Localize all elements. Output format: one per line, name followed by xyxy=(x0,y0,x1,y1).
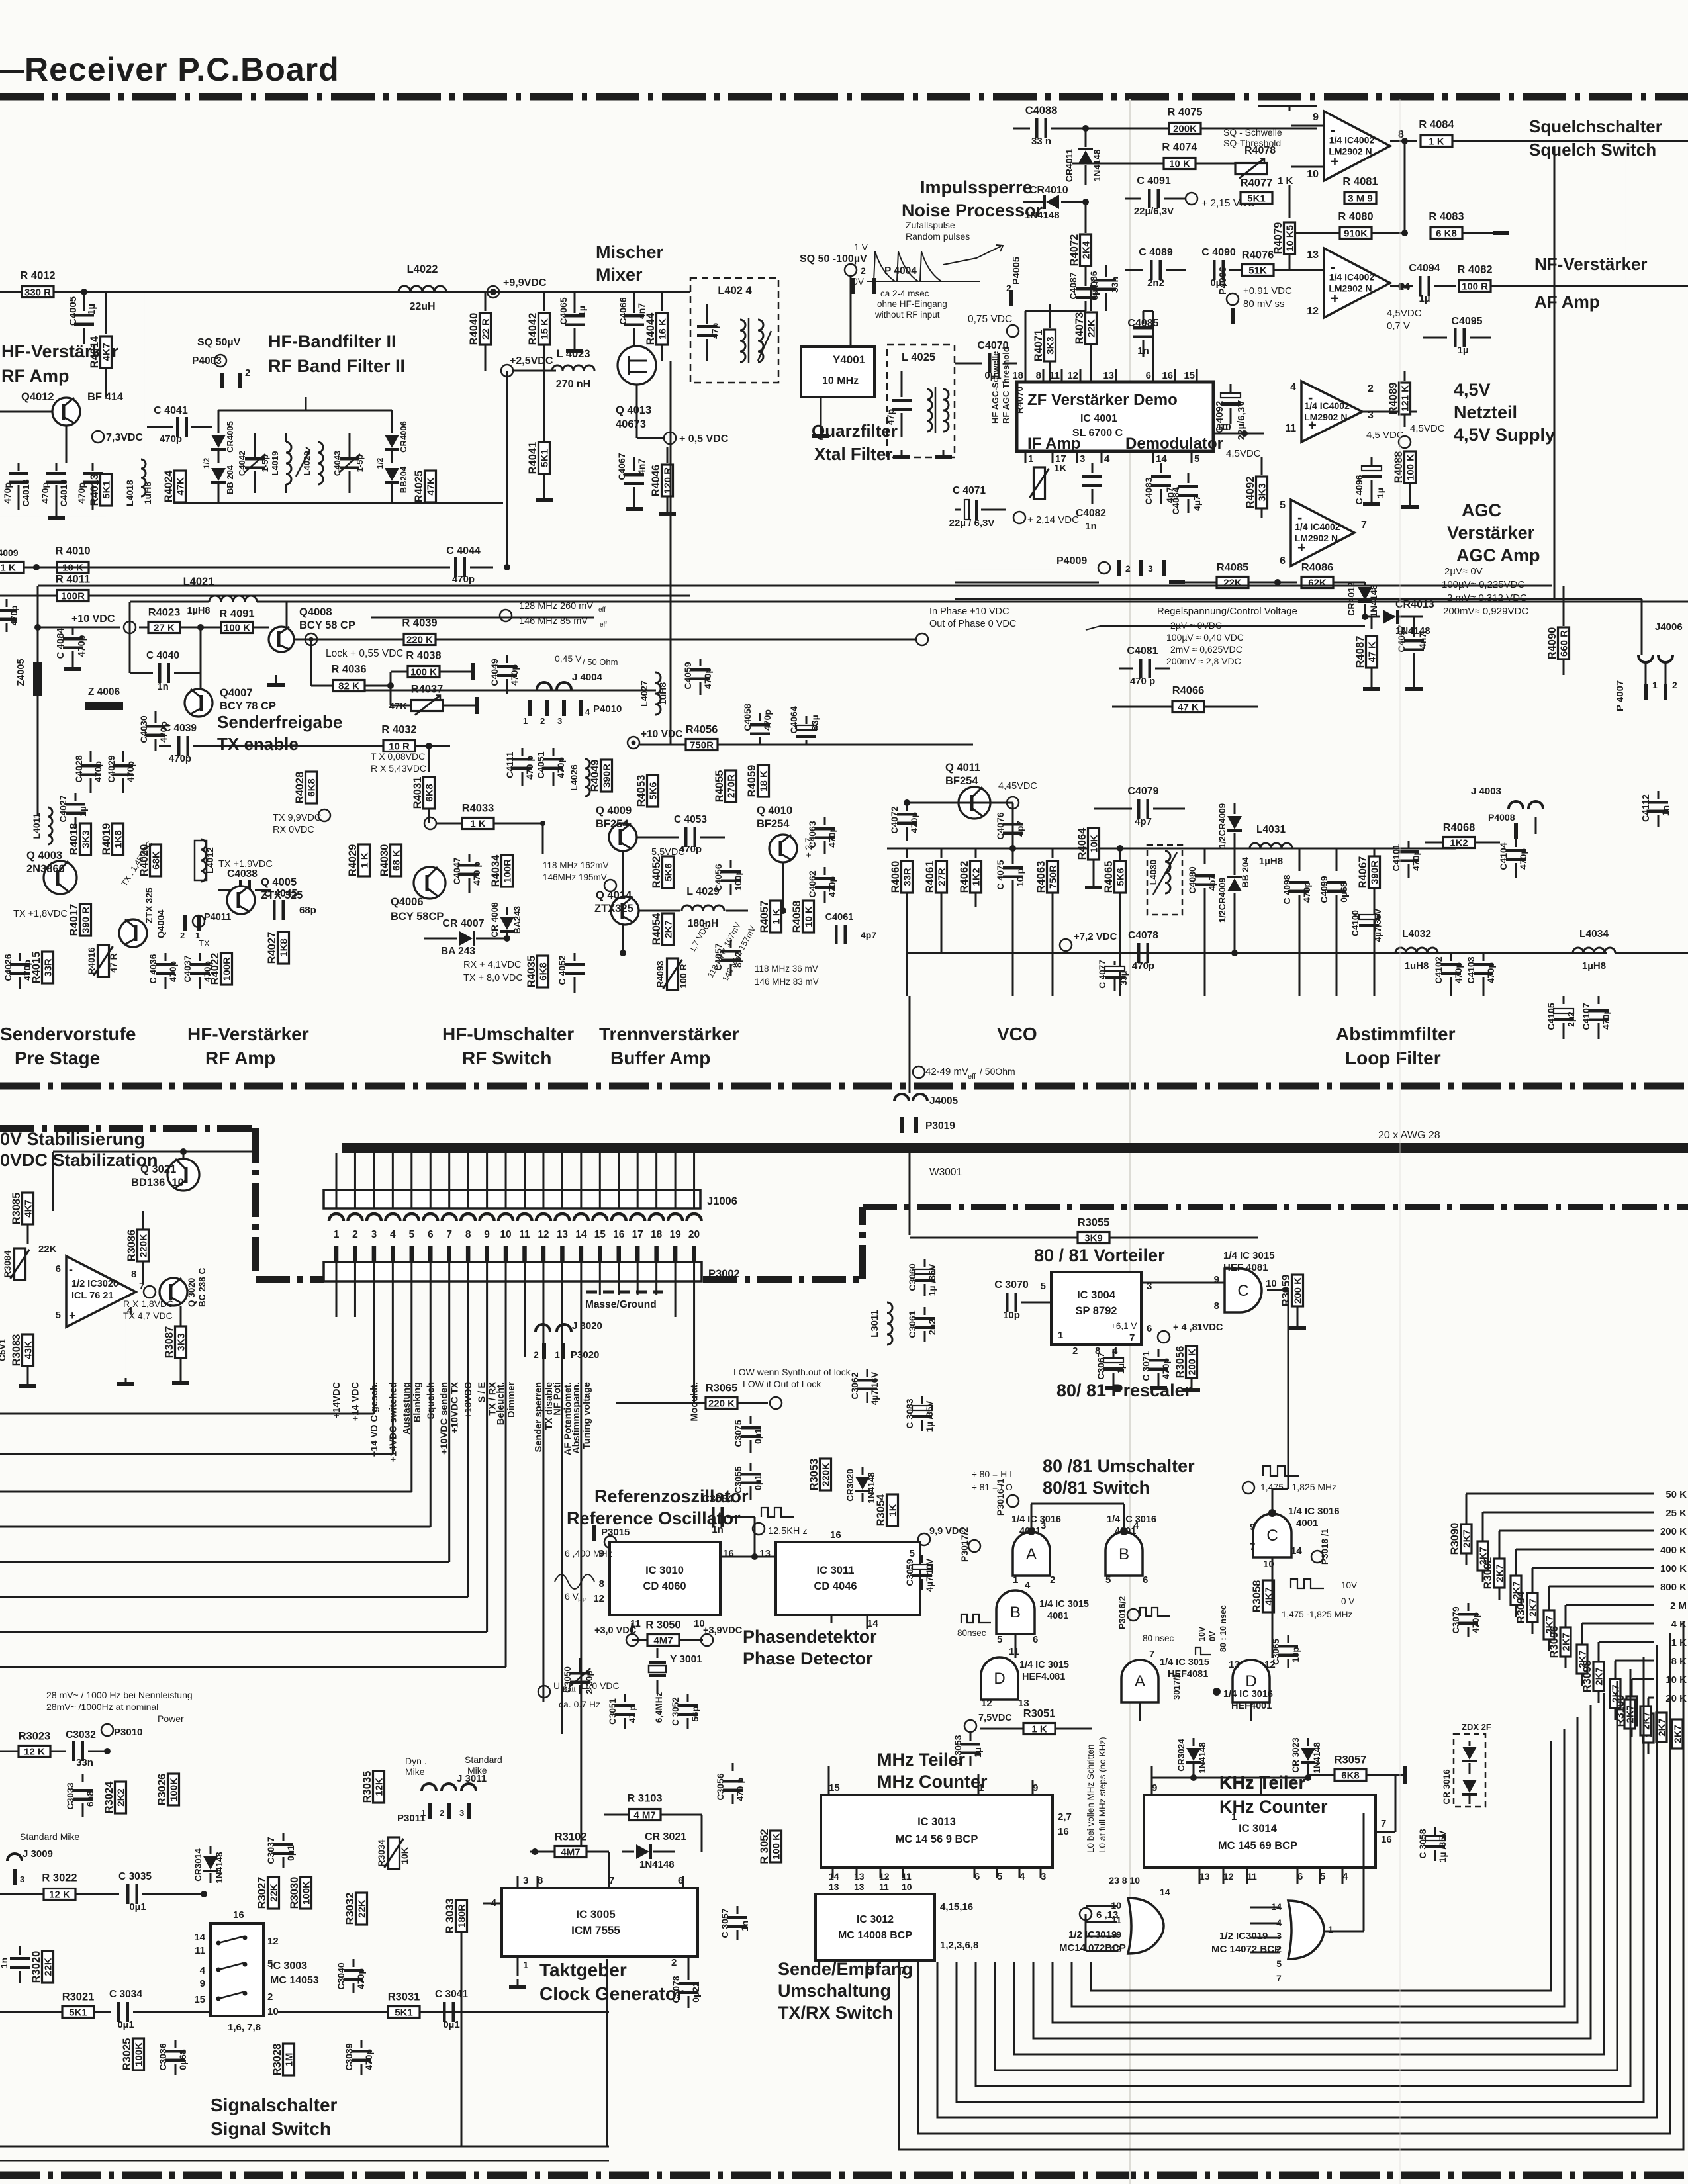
svg-text:1/4 IC4002: 1/4 IC4002 xyxy=(1295,522,1340,532)
svg-text:HF AGC-Schwelle: HF AGC-Schwelle xyxy=(990,351,1000,424)
svg-text:Taktgeber: Taktgeber xyxy=(539,1960,627,1980)
svg-text:L4018: L4018 xyxy=(124,480,135,506)
svg-text:ohne HF-Eingang: ohne HF-Eingang xyxy=(877,299,947,309)
svg-text:R4014: R4014 xyxy=(89,336,101,368)
svg-text:C4019: C4019 xyxy=(58,479,69,506)
node UBatt xyxy=(538,1686,550,1698)
svg-text:5K6: 5K6 xyxy=(648,782,659,800)
svg-text:2: 2 xyxy=(1072,1345,1078,1357)
resistor R3052 xyxy=(771,1831,782,1862)
svg-text:80/81 Switch: 80/81 Switch xyxy=(1043,1478,1150,1498)
svg-text:A: A xyxy=(1026,1545,1037,1563)
svg-text:1/2CR4009: 1/2CR4009 xyxy=(1217,878,1227,923)
wire taktgeber join xyxy=(701,1815,703,1852)
resistor R3101 xyxy=(1643,1713,1654,1743)
svg-text:2: 2 xyxy=(1125,563,1131,574)
node 2.14VDC xyxy=(1013,512,1025,523)
capacitor C4078 xyxy=(1137,943,1141,963)
svg-text:4,5VDC: 4,5VDC xyxy=(1387,308,1422,319)
Masse/Ground dashed xyxy=(586,1291,663,1294)
svg-text:470p: 470p xyxy=(355,1968,366,1989)
svg-text:121 K: 121 K xyxy=(1400,385,1411,412)
svg-text:LOW wenn Synth.out of lock: LOW wenn Synth.out of lock xyxy=(733,1367,851,1377)
svg-text:200 K: 200 K xyxy=(1293,1277,1304,1304)
svg-text:1: 1 xyxy=(1328,1924,1333,1934)
svg-text:ZTX325: ZTX325 xyxy=(594,903,633,915)
svg-text:470p: 470p xyxy=(555,757,566,778)
resistor R3100 xyxy=(1626,1696,1637,1725)
svg-text:8: 8 xyxy=(465,1229,471,1240)
capacitor C4020 xyxy=(92,463,94,471)
transistor Q3020 xyxy=(160,1278,187,1306)
svg-text:10 K5: 10 K5 xyxy=(1285,225,1296,251)
svg-text:+3,0 VDC: +3,0 VDC xyxy=(594,1625,637,1636)
wire VCO to synth xyxy=(909,996,911,1056)
svg-text:L4019: L4019 xyxy=(270,451,280,476)
svg-text:C4063: C4063 xyxy=(807,821,818,848)
svg-text:P3019: P3019 xyxy=(925,1120,955,1132)
svg-text:C3033: C3033 xyxy=(65,1782,75,1809)
svg-text:C 3071: C 3071 xyxy=(1141,1351,1151,1381)
svg-text:220 K: 220 K xyxy=(708,1398,735,1410)
svg-text:R 3033: R 3033 xyxy=(444,1898,456,1933)
resistor R3051 xyxy=(1023,1723,1055,1735)
svg-text:R3053: R3053 xyxy=(808,1459,820,1491)
svg-text:200K: 200K xyxy=(1173,124,1197,135)
svg-text:270R: 270R xyxy=(726,774,737,798)
svg-text:3K3: 3K3 xyxy=(81,830,92,848)
svg-text:100K: 100K xyxy=(301,1881,312,1905)
svg-text:13: 13 xyxy=(1018,1698,1029,1709)
capacitor C4027 xyxy=(75,793,77,801)
svg-text:Sende/Empfang: Sende/Empfang xyxy=(778,1959,913,1979)
node +0.5VDC xyxy=(664,432,676,444)
svg-text:C4065: C4065 xyxy=(558,297,569,324)
resistor R4075 xyxy=(1169,123,1201,134)
svg-text:C4051: C4051 xyxy=(536,751,546,778)
svg-text:C4057: C4057 xyxy=(713,943,724,970)
resistor R3032 xyxy=(356,1893,367,1925)
svg-text:W3001: W3001 xyxy=(929,1167,962,1178)
svg-text:470p: 470p xyxy=(169,753,191,764)
svg-text:BF254: BF254 xyxy=(596,818,629,830)
svg-text:16: 16 xyxy=(1381,1834,1392,1845)
svg-text:180R: 180R xyxy=(457,1904,468,1928)
svg-text:C3036: C3036 xyxy=(158,2043,168,2070)
svg-text:7: 7 xyxy=(446,1229,452,1240)
svg-text:16: 16 xyxy=(830,1529,841,1541)
svg-text:10p: 10p xyxy=(1003,1310,1020,1321)
svg-text:BB 204: BB 204 xyxy=(225,465,235,494)
resistor R4080 xyxy=(1340,228,1372,239)
svg-text:6 ,400 MHz: 6 ,400 MHz xyxy=(565,1548,612,1559)
IC U3005 ICM7555 xyxy=(502,1888,698,1956)
svg-text:Y4001: Y4001 xyxy=(833,353,865,366)
svg-text:Out of Phase 0 VDC: Out of Phase 0 VDC xyxy=(929,619,1016,629)
IC3005 pin stubs xyxy=(517,1876,519,1888)
resistor R4084 xyxy=(1421,136,1452,147)
ferrite Z4006 xyxy=(85,702,123,710)
capacitor C4084 xyxy=(1188,473,1190,483)
svg-text:C4099: C4099 xyxy=(1319,876,1329,903)
resistor R3031 xyxy=(388,2007,420,2018)
svg-text:4µ7/16V: 4µ7/16V xyxy=(870,1372,880,1406)
ferrite Z4005 xyxy=(33,662,42,696)
svg-text:1K: 1K xyxy=(1054,463,1066,474)
trimmer capacitor C4042 xyxy=(254,433,256,457)
svg-text:100 K: 100 K xyxy=(1405,454,1417,480)
svg-text:22K: 22K xyxy=(1223,578,1242,589)
svg-text:470p: 470p xyxy=(1411,850,1421,871)
svg-text:J4005: J4005 xyxy=(929,1095,958,1107)
svg-text:C 4045: C 4045 xyxy=(264,888,297,899)
svg-text:C: C xyxy=(1237,1282,1248,1300)
svg-text:10: 10 xyxy=(500,1229,511,1240)
svg-text:1N4148: 1N4148 xyxy=(214,1852,224,1884)
svg-text:2K4: 2K4 xyxy=(1081,241,1092,259)
resistor R3026 xyxy=(168,1774,179,1805)
svg-text:C4085: C4085 xyxy=(1127,318,1158,329)
svg-text:1 K: 1 K xyxy=(1429,136,1444,148)
svg-text:Clock Generator: Clock Generator xyxy=(539,1983,684,2004)
capacitor C4088 xyxy=(1013,128,1030,130)
svg-text:11: 11 xyxy=(1285,423,1296,434)
resistor R4011 xyxy=(57,590,89,602)
svg-text:L4020: L4020 xyxy=(302,451,312,476)
svg-text:Z 4006: Z 4006 xyxy=(88,686,120,698)
svg-text:C3059: C3059 xyxy=(904,1559,915,1586)
svg-text:1: 1 xyxy=(523,716,528,726)
svg-text:R4079: R4079 xyxy=(1272,222,1284,255)
svg-text:11: 11 xyxy=(1111,1915,1121,1925)
svg-text:SP 8792: SP 8792 xyxy=(1075,1305,1117,1317)
svg-text:C4097: C4097 xyxy=(1396,625,1407,652)
svg-text:100K: 100K xyxy=(169,1778,180,1801)
svg-text:Mixer: Mixer xyxy=(596,265,643,285)
capacitor C4058 xyxy=(759,713,761,721)
svg-text:13: 13 xyxy=(854,1882,865,1892)
svg-text:470p: 470p xyxy=(2,482,13,504)
trimmer capacitor C4043 xyxy=(349,433,351,457)
svg-text:Q 4010: Q 4010 xyxy=(757,805,792,817)
svg-text:R4022: R4022 xyxy=(209,953,221,985)
wire top right long verticals xyxy=(1625,141,1626,286)
svg-text:14: 14 xyxy=(829,1871,839,1882)
resistor R4077 xyxy=(1241,193,1272,204)
svg-text:RF Amp: RF Amp xyxy=(205,1048,275,1068)
svg-text:47p: 47p xyxy=(885,409,896,425)
resistor R4072 xyxy=(1085,202,1087,233)
svg-text:MC 14008 BCP: MC 14008 BCP xyxy=(838,1930,912,1941)
potentiometer R4037 xyxy=(411,700,443,711)
svg-text:Q4007: Q4007 xyxy=(220,687,253,699)
svg-text:CR4006: CR4006 xyxy=(399,421,408,453)
svg-text:AF Amp: AF Amp xyxy=(1534,292,1600,312)
wire khz teiler link xyxy=(1260,1778,1262,1795)
svg-text:R4041: R4041 xyxy=(527,442,539,475)
svg-text:1/2 IC3019: 1/2 IC3019 xyxy=(1219,1931,1268,1942)
svg-text:12: 12 xyxy=(1111,1944,1121,1954)
connector P3002 xyxy=(324,1262,702,1281)
svg-text:13: 13 xyxy=(1307,250,1319,261)
svg-text:11: 11 xyxy=(1049,370,1060,381)
svg-text:CR4005: CR4005 xyxy=(225,421,235,453)
resistor R4057 xyxy=(771,901,782,933)
wire long rail A xyxy=(38,585,1552,587)
svg-text:R4030: R4030 xyxy=(379,844,391,877)
wire bottom rails join xyxy=(437,2011,609,2013)
svg-text:14: 14 xyxy=(1156,453,1167,465)
svg-text:BD136 -10: BD136 -10 xyxy=(131,1177,184,1189)
wire counter top stubs xyxy=(828,1766,830,1795)
probe P4006 xyxy=(1227,293,1239,305)
svg-text:Q 4013: Q 4013 xyxy=(616,404,651,416)
capacitor C3060 xyxy=(924,1259,926,1267)
svg-text:TX enable: TX enable xyxy=(217,734,299,754)
svg-text:100 R: 100 R xyxy=(678,964,688,988)
svg-text:0,7 V: 0,7 V xyxy=(1387,320,1410,332)
wire pin10 xyxy=(1213,433,1264,435)
svg-text:R4027: R4027 xyxy=(266,932,278,964)
svg-text:10: 10 xyxy=(1307,169,1319,180)
svg-text:470p: 470p xyxy=(125,761,136,782)
capacitor C3083 xyxy=(921,1396,923,1404)
svg-text:P4008: P4008 xyxy=(1488,812,1515,823)
svg-text:15: 15 xyxy=(829,1782,840,1794)
svg-text:Signal Switch: Signal Switch xyxy=(211,2118,331,2139)
svg-text:7: 7 xyxy=(1149,1649,1154,1660)
svg-text:C4107: C4107 xyxy=(1581,1003,1591,1030)
svg-text:1K8: 1K8 xyxy=(113,830,124,848)
svg-text:47 K: 47 K xyxy=(1178,702,1199,713)
capacitor C4082 xyxy=(1092,463,1094,473)
crystal filter Y4001 xyxy=(801,347,874,397)
svg-text:R4054: R4054 xyxy=(651,913,663,945)
svg-text:C3051: C3051 xyxy=(608,1698,618,1725)
svg-text:18: 18 xyxy=(651,1229,663,1240)
resistor R4039 xyxy=(404,634,436,645)
svg-text:HF-Verstärker: HF-Verstärker xyxy=(187,1024,309,1044)
svg-text:C 4084: C 4084 xyxy=(56,628,66,659)
capacitor C3059 xyxy=(921,1555,923,1563)
svg-text:1µ /35V: 1µ /35V xyxy=(1437,1830,1448,1862)
svg-text:1 K: 1 K xyxy=(0,563,16,574)
svg-text:1 K: 1 K xyxy=(1031,1724,1047,1735)
ground clock xyxy=(517,1979,519,1985)
svg-text:+7,2 VDC: +7,2 VDC xyxy=(1074,931,1117,942)
inductor L4019 xyxy=(286,442,291,484)
comparator IC3020 ICL7621 xyxy=(66,1256,136,1327)
svg-text:Dyn .: Dyn . xyxy=(405,1756,427,1766)
svg-text:1/4 IC 3015: 1/4 IC 3015 xyxy=(1160,1657,1209,1668)
wire opamp U1 xyxy=(1291,125,1324,127)
svg-text:Batt: Batt xyxy=(563,1686,576,1694)
gate U3019B MC14072 xyxy=(1288,1901,1324,1959)
svg-text:220 K: 220 K xyxy=(406,635,433,646)
electrolytic C4092 xyxy=(1230,384,1232,392)
wire W3001 xyxy=(909,1153,911,1235)
svg-text:1: 1 xyxy=(1058,1330,1063,1341)
resistor R3103 xyxy=(629,1809,661,1821)
svg-text:CR3020: CR3020 xyxy=(845,1469,855,1502)
svg-text:400 K: 400 K xyxy=(1660,1545,1687,1556)
svg-text:R4052: R4052 xyxy=(651,856,663,889)
svg-text:R3058: R3058 xyxy=(1251,1580,1263,1613)
svg-text:MHz Counter: MHz Counter xyxy=(877,1772,988,1792)
svg-text:+ 4 ,81VDC: + 4 ,81VDC xyxy=(1173,1322,1223,1333)
svg-text:L4034: L4034 xyxy=(1579,929,1609,940)
svg-text:5K1: 5K1 xyxy=(395,2007,413,2019)
svg-text:R4093: R4093 xyxy=(655,960,665,987)
svg-text:Impulssperre: Impulssperre xyxy=(920,177,1033,197)
svg-text:68 K: 68 K xyxy=(391,850,402,871)
svg-text:+0,91 VDC: +0,91 VDC xyxy=(1243,285,1292,296)
svg-text:Random pulses: Random pulses xyxy=(906,231,970,242)
transistor Q4009 xyxy=(609,823,637,851)
svg-text:33n: 33n xyxy=(76,1757,93,1768)
svg-text:C4026: C4026 xyxy=(3,954,13,981)
svg-text:R 4010: R 4010 xyxy=(55,545,90,557)
capacitor C3035 xyxy=(126,1884,130,1904)
resistor R3025 xyxy=(133,2038,144,2070)
wire filter top xyxy=(218,410,392,412)
svg-text:R4056: R4056 xyxy=(686,724,718,736)
svg-text:2µV≈ 0V: 2µV≈ 0V xyxy=(1444,566,1483,577)
capacitor C3061 xyxy=(924,1307,926,1315)
svg-text:LM2902 N: LM2902 N xyxy=(1304,412,1347,422)
svg-text:7: 7 xyxy=(1250,1541,1255,1553)
svg-text:11: 11 xyxy=(519,1229,530,1240)
svg-text:1/4 IC 3016: 1/4 IC 3016 xyxy=(1223,1689,1273,1700)
svg-text:R 4083: R 4083 xyxy=(1429,211,1464,223)
svg-text:C 4089: C 4089 xyxy=(1139,247,1173,258)
capacitor C3062 xyxy=(867,1369,868,1377)
capacitors C4028 C4029 xyxy=(90,751,92,762)
svg-text:A: A xyxy=(1135,1672,1145,1690)
diode CR4012 xyxy=(1364,582,1366,585)
svg-text:P 4007: P 4007 xyxy=(1615,680,1626,711)
probe P4011 xyxy=(183,915,187,931)
svg-text:4p7: 4p7 xyxy=(1207,875,1217,891)
svg-text:BB204: BB204 xyxy=(399,466,408,493)
svg-text:47K: 47K xyxy=(175,477,187,496)
svg-text:15: 15 xyxy=(594,1229,606,1240)
svg-text:Q4008: Q4008 xyxy=(299,606,332,618)
wire stab top xyxy=(53,1151,258,1153)
svg-text:1uH8: 1uH8 xyxy=(657,682,668,705)
svg-text:R4016: R4016 xyxy=(86,947,97,974)
resistor R4033 xyxy=(462,818,494,829)
capacitor C3054 xyxy=(712,1507,715,1527)
svg-text:C3040: C3040 xyxy=(336,1962,346,1989)
svg-text:R4061: R4061 xyxy=(924,861,936,893)
svg-text:1µ: 1µ xyxy=(577,306,587,316)
svg-text:2: 2 xyxy=(540,716,545,726)
svg-text:RF Switch: RF Switch xyxy=(462,1048,551,1068)
svg-text:R4042: R4042 xyxy=(527,313,539,345)
svg-text:470p: 470p xyxy=(1470,1612,1481,1633)
svg-text:470p: 470p xyxy=(1518,848,1528,870)
svg-text:R4089: R4089 xyxy=(1387,383,1399,415)
transistor Q4004 xyxy=(119,919,147,947)
svg-text:R 4084: R 4084 xyxy=(1419,119,1454,131)
svg-text:C4086: C4086 xyxy=(1088,271,1099,298)
svg-text:3: 3 xyxy=(459,1808,464,1818)
resistor R4029 xyxy=(359,844,370,876)
inductor L4020 xyxy=(318,442,323,484)
svg-text:4: 4 xyxy=(1290,382,1296,393)
svg-text:IF Amp: IF Amp xyxy=(1027,435,1080,453)
svg-text:3: 3 xyxy=(1080,453,1085,465)
svg-text:12: 12 xyxy=(1223,1871,1234,1882)
svg-text:R4046: R4046 xyxy=(650,465,662,497)
svg-text:4,45VDC: 4,45VDC xyxy=(998,781,1037,792)
svg-text:7: 7 xyxy=(1276,1973,1282,1983)
svg-text:470p: 470p xyxy=(509,664,520,686)
svg-text:1N4148: 1N4148 xyxy=(1092,149,1102,181)
svg-text:0 V: 0 V xyxy=(1341,1596,1354,1606)
svg-text:1/2: 1/2 xyxy=(375,457,385,469)
resistor R3095 xyxy=(1544,1610,1554,1639)
svg-text:-: - xyxy=(69,1263,73,1276)
capacitor C3078 xyxy=(688,1972,690,1980)
svg-text:13: 13 xyxy=(829,1882,839,1892)
resistor R4010 xyxy=(57,562,89,573)
wire y857 xyxy=(24,567,437,569)
transistor Q4006 xyxy=(414,867,445,899)
transistor Q4014 xyxy=(611,897,639,925)
capacitor C4081 xyxy=(1119,668,1133,670)
svg-text:51K: 51K xyxy=(1248,265,1267,277)
svg-text:62K: 62K xyxy=(1308,578,1327,589)
capacitor C3032 xyxy=(72,1741,75,1761)
svg-text:C4105: C4105 xyxy=(1546,1003,1556,1030)
svg-text:R3054: R3054 xyxy=(875,1494,887,1526)
inductor L4029 xyxy=(639,910,680,912)
resistor R4083 xyxy=(1430,228,1462,239)
wire bundle upper left xyxy=(144,292,145,463)
svg-text:19: 19 xyxy=(669,1229,681,1240)
svg-text:Q 4011: Q 4011 xyxy=(945,762,980,774)
resistor R4054 xyxy=(663,913,674,945)
svg-text:8: 8 xyxy=(131,1269,136,1280)
svg-text:L4022: L4022 xyxy=(407,263,438,275)
svg-text:4,5VDC: 4,5VDC xyxy=(1226,448,1261,459)
svg-text:1n: 1n xyxy=(739,1921,750,1931)
svg-text:C 4036: C 4036 xyxy=(148,954,158,983)
svg-text:4: 4 xyxy=(585,707,590,717)
svg-text:470p: 470p xyxy=(76,482,87,504)
svg-text:Phase Detector: Phase Detector xyxy=(743,1649,873,1668)
svg-text:22 R: 22 R xyxy=(481,318,492,340)
svg-text:C4112: C4112 xyxy=(1641,794,1652,822)
capacitor C4030 xyxy=(155,711,157,723)
svg-text:C4081: C4081 xyxy=(1127,645,1158,657)
svg-text:Standard Mike: Standard Mike xyxy=(20,1831,79,1842)
capacitor C3034 xyxy=(117,2002,120,2022)
svg-text:Q 3020: Q 3020 xyxy=(187,1278,197,1307)
svg-text:2: 2 xyxy=(352,1229,358,1240)
svg-text:6K8: 6K8 xyxy=(306,778,318,797)
capacitor C4033 xyxy=(6,599,8,607)
resistor R4034 xyxy=(502,855,513,887)
svg-text:7: 7 xyxy=(1361,520,1367,531)
resistor R3092 xyxy=(1494,1559,1505,1588)
svg-text:R4028: R4028 xyxy=(294,772,306,804)
capacitor C4104 xyxy=(1515,839,1517,847)
svg-text:9: 9 xyxy=(484,1229,490,1240)
svg-text:2n2: 2n2 xyxy=(927,1319,937,1335)
